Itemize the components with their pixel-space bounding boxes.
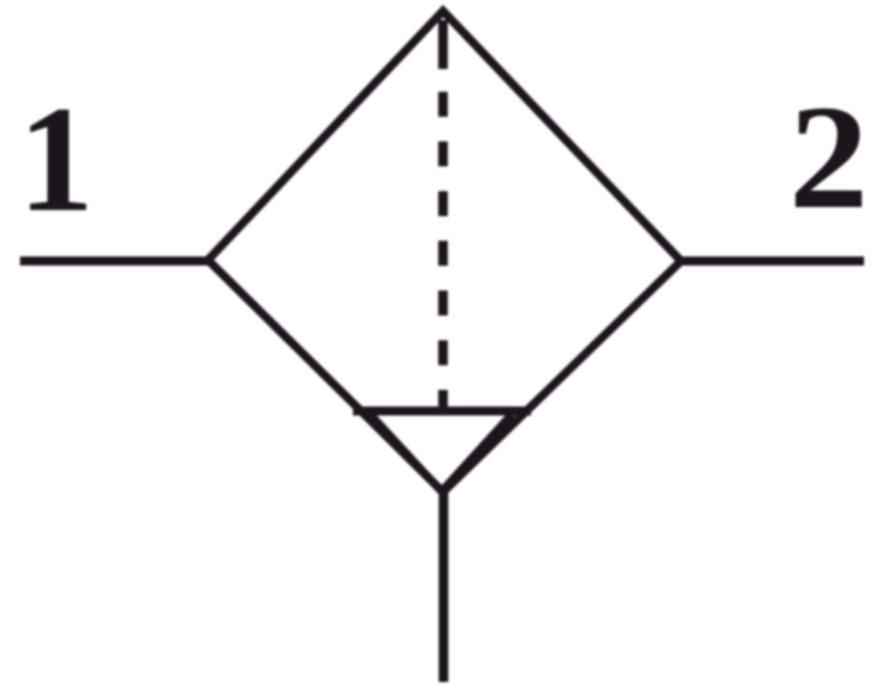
wire port 1 lead bbox=[20, 257, 214, 266]
filter body diamond bbox=[208, 11, 681, 492]
separator chord bbox=[353, 407, 531, 416]
svg-text:2: 2 bbox=[789, 76, 869, 240]
drain triangle right edge bbox=[441, 414, 512, 492]
wire drain lead bbox=[439, 488, 449, 682]
filter element dashed line bbox=[438, 92, 448, 407]
filter element first dash merged with apex bbox=[438, 20, 448, 69]
svg-text:1: 1 bbox=[18, 75, 94, 243]
drain triangle left edge bbox=[370, 414, 442, 492]
wire port 2 lead bbox=[675, 257, 864, 266]
